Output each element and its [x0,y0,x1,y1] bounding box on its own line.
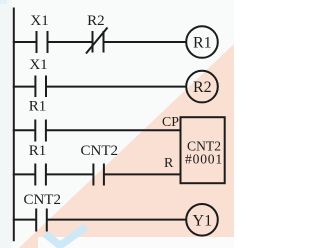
wire rung5: CNT2 to coil Y1 [47,219,187,221]
wire rung1: X1 to R2 [48,41,93,43]
svg-text:R1: R1 [29,98,47,114]
wire rung3: rail to R1 [13,129,36,131]
paper background [0,0,234,248]
contact CNT2 (rung5) [36,209,47,232]
svg-text:R: R [164,156,174,171]
svg-text:R1: R1 [193,35,212,52]
wire rung4: rail to R1 [13,173,36,175]
coil R2 [186,71,218,103]
svg-text:X1: X1 [30,13,48,29]
svg-text:#0001: #0001 [185,151,223,166]
bottom white strip [38,237,234,248]
wire rung2: rail to X1 [13,86,36,88]
svg-text:R2: R2 [87,13,105,29]
contact X1 (rung2) [35,76,46,98]
svg-text:X1: X1 [29,57,47,73]
svg-text:Y1: Y1 [193,212,213,229]
wire rung4: R1 to CNT2 contact [46,173,94,175]
coil R1 [186,26,218,58]
svg-text:CNT2: CNT2 [23,192,61,208]
svg-text:R1: R1 [29,143,47,159]
left power rail [13,8,15,242]
svg-text:CP: CP [162,114,179,129]
corner smudge [0,0,7,4]
contact X1 (rung1) [37,31,48,53]
coil Y1 [186,204,218,236]
left margin shading [0,0,12,248]
pink diagonal panel [16,44,234,248]
contact R1 (rung3) [35,120,46,142]
wire rung4: CNT2 to counter R input [104,173,181,175]
contact CNT2 (rung4) [93,164,104,186]
wire rung5: rail to CNT2 [13,219,36,221]
wire rung2: X1 to coil R2 [46,86,186,88]
wire rung3: R1 to counter CP input [46,129,181,131]
svg-text:R2: R2 [193,79,212,96]
contact R1 (rung4) [35,164,46,186]
contact R2 normally-closed (rung1) [86,28,108,54]
counter CNT2 box [181,117,225,183]
wire rung1: R2 to coil R1 [104,41,187,43]
svg-text:CNT2: CNT2 [81,143,119,159]
wire rung1: rail to X1 [13,41,37,43]
blue check watermark [46,227,87,246]
